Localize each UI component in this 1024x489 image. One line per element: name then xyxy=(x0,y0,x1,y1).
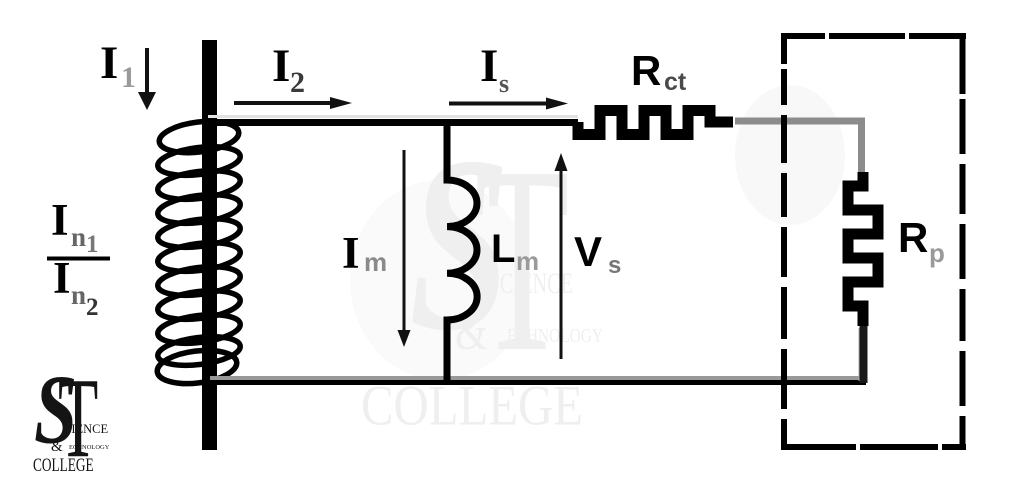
wire from Rp to bottom (dark, light-gray edge) xyxy=(860,326,864,383)
svg-text:R: R xyxy=(631,47,661,94)
resistor Rct xyxy=(578,111,733,135)
svg-text:I: I xyxy=(342,228,360,278)
logo ST College (bottom left) xyxy=(33,355,110,481)
label Vs xyxy=(574,228,621,279)
svg-text:s: s xyxy=(499,69,509,98)
primary winding coil xyxy=(155,117,241,388)
svg-text:n: n xyxy=(71,222,86,252)
svg-text:2: 2 xyxy=(86,294,99,321)
dashed burden boundary box xyxy=(781,33,966,450)
label Rp xyxy=(898,214,945,268)
arrow I2 (right) xyxy=(234,97,352,109)
label In1/In2 turns-ratio fraction xyxy=(47,195,110,321)
resistor Rp xyxy=(848,172,878,326)
wire top (secondary) xyxy=(208,117,578,123)
svg-text:m: m xyxy=(364,247,387,277)
arrow Is (right) xyxy=(449,98,568,110)
svg-text:ECHNOLOGY: ECHNOLOGY xyxy=(507,324,603,346)
svg-text:2: 2 xyxy=(290,66,305,99)
wire from Rct to burden box (gray) xyxy=(735,121,862,174)
svg-text:1: 1 xyxy=(86,231,99,258)
label Im xyxy=(342,228,387,278)
transformer core bar xyxy=(202,40,217,450)
arrow Im (down) xyxy=(398,150,411,347)
wire bottom (black) xyxy=(210,380,866,385)
label Lm xyxy=(491,227,539,276)
svg-text:V: V xyxy=(574,228,602,275)
watermark faint blob upper xyxy=(735,85,845,225)
svg-text:R: R xyxy=(898,214,928,261)
svg-text:1: 1 xyxy=(121,61,136,94)
svg-text:s: s xyxy=(608,252,621,279)
svg-text:n: n xyxy=(71,280,86,310)
svg-text:I: I xyxy=(480,40,498,92)
svg-text:I: I xyxy=(53,253,71,303)
svg-text:I: I xyxy=(272,40,290,92)
svg-text:I: I xyxy=(100,37,118,89)
svg-text:p: p xyxy=(929,238,945,268)
label Rct xyxy=(631,47,687,96)
arrow I1 (down) xyxy=(138,48,156,110)
label Is xyxy=(480,40,509,98)
label I2 xyxy=(272,40,305,99)
inductor Lm xyxy=(447,119,477,385)
watermark ST College (faint center) xyxy=(361,106,603,438)
label I1 xyxy=(100,37,136,94)
watermark faint blob center xyxy=(350,180,530,380)
svg-text:L: L xyxy=(491,227,515,271)
wire bottom (gray top edge) xyxy=(210,376,866,380)
svg-text:I: I xyxy=(51,195,69,245)
svg-text:m: m xyxy=(516,246,539,276)
svg-text:ct: ct xyxy=(664,68,687,96)
arrow Vs (up) xyxy=(555,153,568,359)
